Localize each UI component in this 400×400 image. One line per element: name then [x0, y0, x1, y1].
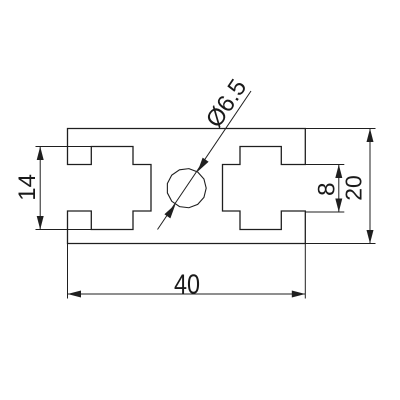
extension lines dim 20 (top/bottom edges extended): [305, 128, 375, 130]
dimension line 14: [39, 147, 41, 230]
extension lines dim 8: [305, 164, 344, 166]
svg-text:14: 14: [14, 174, 41, 201]
svg-text:8: 8: [313, 182, 340, 196]
profile outline with two T-slots: [68, 129, 306, 244]
extension lines dim 14: [36, 146, 93, 148]
dimension line 8: [338, 165, 340, 213]
leader line for hole label: [158, 91, 252, 230]
dimension line 20: [369, 129, 371, 244]
center hole Ø6.5 (drawn as polygon circle): [167, 169, 206, 208]
dimension line 40: [68, 293, 306, 295]
extension lines dim 40: [67, 244, 69, 299]
leader arrowheads on hole: [164, 158, 208, 219]
svg-text:40: 40: [174, 270, 200, 300]
svg-text:20: 20: [341, 175, 367, 201]
